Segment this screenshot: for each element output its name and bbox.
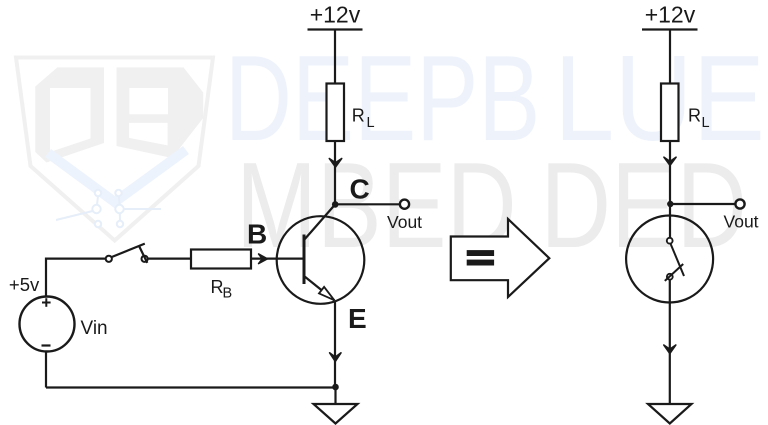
node C junction dot (332, 201, 339, 208)
switch SW1 actuator tick (139, 246, 147, 263)
switch SW2 top contact (667, 238, 673, 244)
+12v supply bar (left) (308, 28, 363, 30)
equivalent switch body circle (626, 216, 713, 303)
svg-text:B: B (223, 286, 233, 302)
wire: +12v bar to RL (left) (334, 30, 336, 84)
block arrow symbol (451, 219, 550, 297)
svg-text:L: L (702, 115, 710, 131)
resistor RB (191, 250, 251, 269)
svg-text:Vout: Vout (387, 212, 422, 232)
wire: emitter down to bottom rail with arrow (334, 301, 336, 388)
transistor Q1 body circle (277, 216, 365, 304)
svg-text:R: R (688, 106, 701, 126)
switch SW1 right contact (142, 256, 148, 262)
wire: RL to output node (right) (669, 141, 671, 204)
current arrowhead to ground (right) (664, 345, 676, 354)
wire: RL to node C with current arrow (334, 141, 336, 204)
value label RL (left) (352, 106, 375, 132)
svg-text:R: R (352, 106, 365, 126)
svg-text:B: B (247, 219, 267, 250)
watermark text DEEPBLUE (225, 30, 765, 166)
bottom rail junction dot (332, 384, 339, 391)
wire: +12v bar to RL (right) (669, 30, 671, 84)
svg-text:+12v: +12v (310, 2, 361, 28)
wire: switch to RB (148, 258, 191, 260)
emitter current arrowhead (330, 353, 341, 362)
Vout terminal circle (left) (400, 200, 409, 209)
resistor RL (right) (661, 84, 679, 142)
voltage source Vin circle (20, 297, 75, 352)
watermark shield logo (16, 58, 213, 241)
ground symbol (left) (314, 404, 358, 424)
base current arrowhead (259, 254, 268, 264)
wire: node to Vout terminal (right) (670, 203, 735, 205)
transistor Q1 collector stroke (304, 204, 335, 240)
Vout terminal circle (right) (735, 199, 744, 208)
watermark text MBEDDED (236, 137, 747, 273)
output node junction dot (right) (667, 201, 673, 207)
plus sign of Vin (42, 298, 51, 307)
wire: Vin top to switch (46, 259, 106, 297)
transistor Q1 emitter stroke (304, 276, 335, 301)
transistor Q1 base bar (303, 235, 306, 285)
switch SW2 bottom contact (667, 274, 673, 280)
svg-text:C: C (350, 174, 370, 205)
wire: node C to Vout terminal (left) (335, 203, 400, 205)
ground stem (left) (334, 387, 336, 404)
svg-text:Vout: Vout (724, 212, 759, 232)
wire: switch bottom to ground with arrow (669, 280, 671, 404)
equals sign bar 1 (467, 250, 494, 256)
svg-text:E: E (348, 303, 367, 334)
wire: RB to base with arrow (251, 258, 304, 260)
wire: node into switch top contact (669, 204, 671, 238)
svg-text:Vin: Vin (81, 318, 108, 339)
switch SW1 left contact (106, 256, 112, 262)
switch SW2 lever (671, 244, 685, 276)
svg-text:L: L (367, 115, 375, 131)
bottom rail wire (46, 386, 336, 388)
value label RB (211, 277, 233, 302)
+12v supply bar (right) (642, 28, 698, 30)
current arrowhead on RL wire (left) (329, 159, 341, 168)
value label RL (right) (688, 106, 710, 131)
switch SW2 actuator tick (665, 264, 683, 281)
equals sign bar 2 (467, 260, 494, 266)
svg-text:+5v: +5v (9, 274, 40, 295)
wire: Vin bottom to rail (45, 352, 47, 388)
minus sign of Vin (42, 344, 51, 346)
switch SW1 lever (112, 244, 145, 257)
svg-text:+12v: +12v (645, 2, 696, 28)
emitter open arrowhead (319, 287, 334, 300)
ground symbol (right) (648, 404, 692, 424)
current arrowhead on RL wire (right) (664, 157, 676, 165)
resistor RL (left) (327, 84, 345, 142)
